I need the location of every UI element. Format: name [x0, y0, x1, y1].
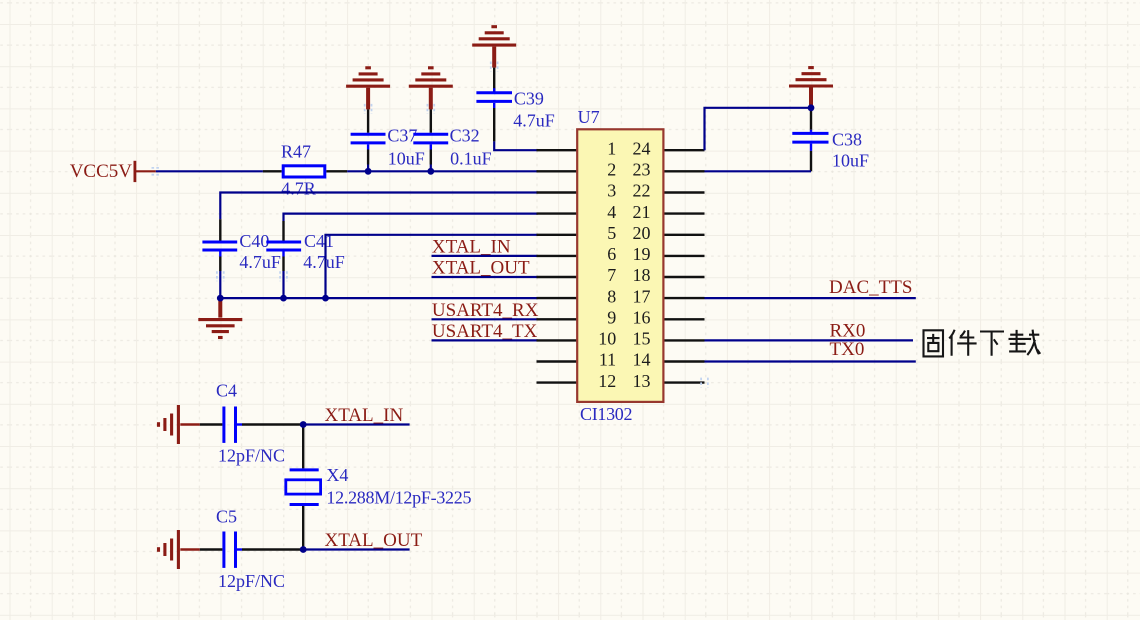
svg-text:6: 6	[607, 244, 616, 264]
svg-text:5: 5	[607, 223, 616, 243]
svg-text:13: 13	[633, 371, 651, 391]
wire USART4_TX to pin10	[432, 339, 538, 341]
svg-text:C39: C39	[514, 89, 544, 109]
wire pin24 up and over to C38 node	[705, 108, 812, 150]
char zai (left part)	[1009, 330, 1032, 352]
svg-text:1: 1	[607, 138, 616, 158]
svg-text:DAC_TTS: DAC_TTS	[829, 277, 912, 298]
ground above C32	[409, 68, 453, 110]
svg-text:4.7uF: 4.7uF	[513, 111, 555, 131]
wire ground to C5	[200, 548, 223, 550]
off-grid marker vcc lead	[152, 168, 161, 175]
svg-text:19: 19	[633, 244, 651, 264]
capacitor C5	[216, 507, 285, 592]
capacitor C38	[792, 129, 869, 170]
svg-text:C40: C40	[239, 231, 269, 251]
wire XTAL_IN to pin6	[432, 255, 538, 257]
svg-text:17: 17	[633, 286, 651, 306]
chip U7 pins right	[663, 150, 705, 382]
svg-text:4.7uF: 4.7uF	[303, 252, 345, 272]
ground left of C4	[159, 405, 200, 444]
wire pin3 to C40	[220, 193, 537, 241]
pin numbers left column	[598, 138, 616, 390]
wire ground rail to pin8	[220, 297, 537, 299]
svg-text:11: 11	[599, 350, 616, 370]
off-grid marker gnd C39	[491, 62, 498, 72]
wire pin5 to ground rail	[326, 235, 538, 298]
node junction C38	[808, 104, 815, 111]
svg-text:C4: C4	[216, 380, 237, 400]
svg-text:14: 14	[633, 350, 651, 370]
svg-text:XTAL_IN: XTAL_IN	[325, 405, 404, 426]
svg-text:2: 2	[607, 160, 616, 180]
node junction C40 gnd	[217, 295, 224, 302]
ground above C38	[789, 68, 833, 108]
node junction C37	[365, 168, 372, 175]
wire RX0 pin15	[705, 339, 914, 341]
capacitor C39	[476, 88, 554, 130]
wire C5 to node XTAL_OUT	[242, 548, 303, 550]
off-grid marker pin13	[701, 378, 708, 388]
svg-text:15: 15	[633, 329, 651, 349]
svg-text:12: 12	[598, 371, 616, 391]
svg-text:VCC5V: VCC5V	[70, 161, 133, 182]
capacitor C32	[413, 125, 491, 168]
svg-text:21: 21	[633, 202, 651, 222]
annotation chinese "firmware download" glyphs	[924, 330, 1041, 357]
svg-text:9: 9	[607, 308, 616, 328]
svg-text:4.7R: 4.7R	[281, 178, 316, 198]
char zai (ge radical)	[1027, 330, 1040, 355]
pin numbers right column	[633, 138, 651, 390]
wire C41 to ground rail	[282, 257, 284, 272]
svg-text:12pF/NC: 12pF/NC	[218, 446, 285, 466]
off-grid marker C41 pin	[280, 271, 287, 281]
off-grid marker gnd C37	[365, 104, 372, 114]
node junction XTAL_OUT	[300, 546, 307, 553]
svg-text:4: 4	[607, 202, 616, 222]
svg-text:XTAL_OUT: XTAL_OUT	[325, 530, 423, 551]
svg-text:XTAL_IN: XTAL_IN	[432, 236, 511, 257]
wire node to XTAL_OUT label	[303, 548, 409, 550]
node junction pin5 gnd	[322, 295, 329, 302]
svg-text:X4: X4	[326, 465, 348, 485]
resistor R47	[263, 141, 347, 198]
svg-text:R47: R47	[281, 141, 311, 161]
capacitor C37	[351, 126, 425, 169]
svg-text:10uF: 10uF	[832, 151, 869, 171]
svg-text:10uF: 10uF	[388, 148, 425, 168]
svg-text:3: 3	[607, 181, 616, 201]
svg-text:C37: C37	[387, 126, 417, 146]
wire ground to C32	[430, 109, 432, 132]
char xia	[980, 332, 1004, 356]
wire node to XTAL_IN label	[303, 423, 409, 425]
svg-text:C32: C32	[450, 125, 480, 145]
wire C39 to pin1	[494, 108, 537, 150]
wire USART4_RX to pin9	[432, 318, 538, 320]
wire R47 to pin2	[347, 170, 537, 172]
ground above C37	[346, 68, 390, 110]
capacitor C40	[202, 231, 281, 272]
wire node to crystal X4	[302, 425, 304, 469]
svg-text:10: 10	[598, 329, 616, 349]
off-grid marker C40 pin	[217, 271, 224, 281]
svg-text:U7: U7	[578, 107, 600, 127]
ground left of C5	[159, 530, 200, 569]
svg-text:USART4_RX: USART4_RX	[432, 300, 539, 321]
power port VCC5V	[70, 161, 156, 182]
svg-text:TX0: TX0	[830, 339, 865, 360]
wire C38 to pin23	[705, 151, 812, 171]
wire C40 to ground rail	[219, 257, 221, 272]
node junction XTAL_IN	[300, 421, 307, 428]
svg-text:20: 20	[633, 223, 651, 243]
node junction C41 gnd	[280, 295, 287, 302]
ground below rail	[198, 298, 242, 337]
chip U7 pins left	[537, 150, 579, 382]
svg-text:12pF/NC: 12pF/NC	[218, 571, 285, 591]
wire VCC5V to R47	[156, 170, 263, 172]
crystal X4	[286, 465, 472, 508]
wire ground to C37	[367, 109, 369, 132]
off-grid marker gnd C32	[427, 104, 434, 114]
svg-text:4.7uF: 4.7uF	[239, 252, 281, 272]
svg-text:0.1uF: 0.1uF	[450, 148, 492, 168]
wire TX0 pin14	[705, 360, 916, 362]
chip U7 body	[577, 129, 663, 402]
capacitor C41	[266, 231, 345, 272]
char jian (person radical)	[949, 330, 976, 356]
char gu inner	[927, 334, 940, 351]
node junction C32	[427, 168, 434, 175]
wire DAC_TTS pin17	[705, 297, 916, 299]
svg-text:C38: C38	[832, 129, 862, 149]
wire pin4 to C41	[284, 214, 538, 221]
svg-text:8: 8	[607, 286, 616, 306]
svg-text:XTAL_OUT: XTAL_OUT	[432, 258, 530, 279]
capacitor C4	[216, 380, 285, 465]
wire C32 to junction	[430, 150, 432, 165]
wire C4 to node XTAL_IN	[242, 423, 303, 425]
char gu (enclosure)	[924, 330, 944, 356]
svg-text:24: 24	[633, 138, 651, 158]
wire node to C38	[810, 108, 812, 130]
svg-text:CI1302: CI1302	[580, 404, 633, 424]
svg-text:23: 23	[633, 160, 651, 180]
wire ground to C4	[200, 423, 223, 425]
wire XTAL_OUT to pin7	[432, 276, 538, 278]
svg-text:12.288M/12pF-3225: 12.288M/12pF-3225	[326, 488, 471, 508]
svg-text:22: 22	[633, 181, 651, 201]
svg-text:16: 16	[633, 308, 651, 328]
wire C37 to junction	[367, 150, 369, 165]
svg-text:USART4_TX: USART4_TX	[432, 321, 538, 342]
wire ground to C39	[493, 68, 495, 92]
svg-text:C5: C5	[216, 507, 237, 527]
svg-text:18: 18	[633, 265, 651, 285]
ground above C39	[472, 27, 516, 68]
svg-text:7: 7	[607, 265, 616, 285]
wire crystal to node XTAL_OUT	[302, 506, 304, 550]
